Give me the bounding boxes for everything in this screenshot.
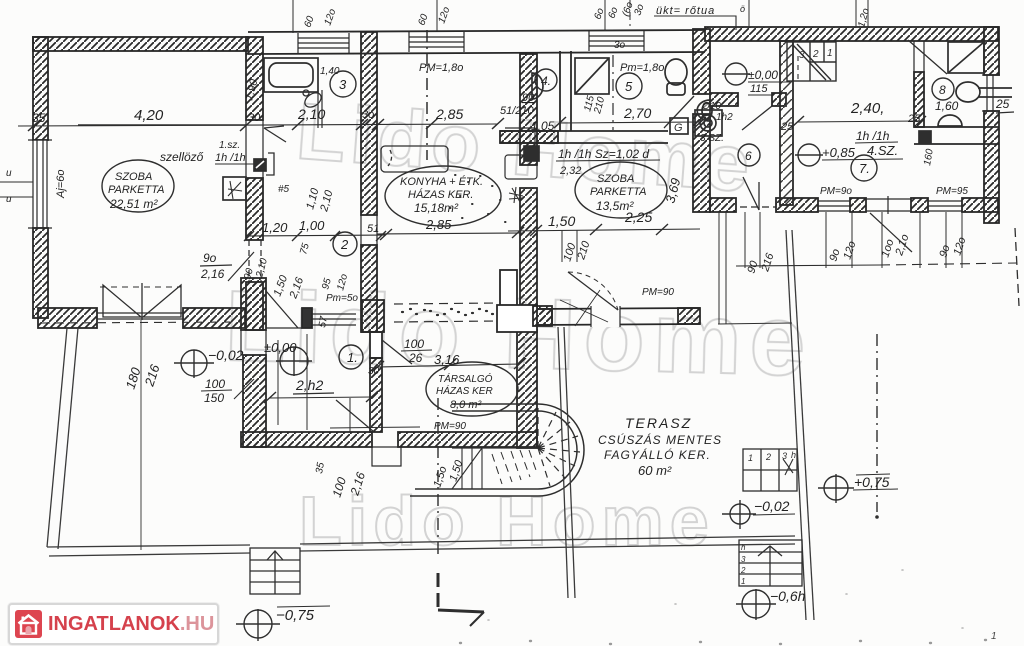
dash-dot vertical terrace right <box>876 334 878 512</box>
svg-text:2,85: 2,85 <box>425 217 452 232</box>
svg-text:1: 1 <box>991 631 997 642</box>
entrance step <box>372 447 401 466</box>
svg-text:2: 2 <box>765 452 771 462</box>
room circle 7 <box>851 155 877 181</box>
svg-text:Pm=5o: Pm=5o <box>326 293 358 304</box>
svg-text:12o: 12o <box>951 236 968 257</box>
dim chain room2 bottom y=236 <box>248 235 385 236</box>
dark stove square near bath 8 <box>919 131 931 143</box>
left room bottom wall left segment <box>38 308 97 328</box>
svg-text:22,51 m²: 22,51 m² <box>109 197 158 211</box>
svg-text:115: 115 <box>750 83 768 95</box>
terrace left border <box>47 328 67 547</box>
svg-text:szellöző: szellöző <box>160 150 204 164</box>
svg-text:1,2o: 1,2o <box>856 7 872 29</box>
dim line below room7 <box>736 265 880 266</box>
svg-text:6o: 6o <box>606 5 620 20</box>
svg-text:−0,02: −0,02 <box>208 347 244 363</box>
window top wall 2 <box>409 32 464 52</box>
ext pair lines x 718-725 <box>718 212 792 324</box>
svg-text:2: 2 <box>812 49 819 60</box>
svg-text:+0,85: +0,85 <box>822 145 856 160</box>
left room left wall lower <box>33 228 48 318</box>
section mark A bottom <box>438 573 484 626</box>
lower wing bottom wall <box>241 432 537 466</box>
toilet room 5 <box>665 59 687 95</box>
szoba 22.51 label <box>102 160 174 212</box>
wall stub above room1 <box>362 300 384 332</box>
svg-text:h: h <box>791 450 796 460</box>
terrace right border <box>786 230 806 620</box>
svg-text:1,60: 1,60 <box>935 99 959 113</box>
lower wing top edge: door jamb dark <box>302 308 312 328</box>
door room2 to room1 <box>266 291 298 328</box>
dim chain szoba13.5 bottom y=230 <box>508 229 700 231</box>
dash-dot vertical bath5 <box>612 55 614 130</box>
dashed boundary right of house <box>880 263 1017 265</box>
left room top wall <box>33 37 248 51</box>
svg-text:1: 1 <box>827 48 833 59</box>
svg-text:26: 26 <box>408 351 423 365</box>
svg-text:FAGYÁLLÓ KER.: FAGYÁLLÓ KER. <box>604 447 711 462</box>
marker ±0,00 room1 <box>264 340 312 376</box>
marker -0,02 terrace <box>722 498 795 529</box>
short right border <box>1015 228 1019 306</box>
svg-text:PM=95: PM=95 <box>936 186 968 197</box>
svg-text:1.: 1. <box>347 350 358 365</box>
svg-text:4,20: 4,20 <box>134 107 164 124</box>
window left wall <box>28 140 52 228</box>
wall between left room and rooms 2-3 <box>246 37 263 330</box>
dim callout lines left room <box>200 265 232 266</box>
stair box room 7 corner <box>787 42 836 81</box>
threshold under room2 door <box>266 327 302 329</box>
stair grid terrace right <box>743 449 797 491</box>
svg-text:51/210: 51/210 <box>500 105 535 117</box>
svg-text:3: 3 <box>339 77 347 92</box>
dashed line below left room door <box>42 322 240 323</box>
svg-text:3.SZ.: 3.SZ. <box>700 133 724 144</box>
marker +0,75 terrace <box>818 474 898 503</box>
svg-text:+0,75: +0,75 <box>854 474 890 490</box>
svg-text:3: 3 <box>741 555 746 564</box>
bath 8 left wall <box>914 41 924 127</box>
svg-text:60: 60 <box>302 14 316 29</box>
svg-text:±0,00: ±0,00 <box>264 340 297 355</box>
svg-text:1,50: 1,50 <box>548 213 575 229</box>
terasz label <box>598 415 722 478</box>
svg-text:CSÚSZÁS MENTES: CSÚSZÁS MENTES <box>598 432 722 447</box>
svg-text:2,40,: 2,40, <box>850 100 884 117</box>
svg-text:8: 8 <box>939 83 946 97</box>
svg-text:−0,6h: −0,6h <box>770 588 806 604</box>
room 7 block top wall <box>705 27 998 41</box>
room circle 2 <box>333 232 357 256</box>
fan hatch <box>492 450 537 484</box>
svg-text:60 m²: 60 m² <box>638 463 672 478</box>
ingatlanok.hu logo <box>8 603 219 645</box>
# mark kitchen <box>509 187 523 203</box>
svg-text:TÁRSALGÓ: TÁRSALGÓ <box>438 372 493 385</box>
svg-text:1,50: 1,50 <box>447 458 465 483</box>
bathtub room 3 <box>264 58 318 92</box>
svg-text:PM=90: PM=90 <box>642 287 674 298</box>
svg-text:3,16: 3,16 <box>434 352 460 367</box>
konyha label <box>385 166 501 232</box>
door szoba13.5 bottom wall <box>568 272 618 310</box>
top wall band middle (rooms 2-3, kitchen, baths 4-5) <box>248 30 705 54</box>
svg-text:PM=9o: PM=9o <box>820 186 852 197</box>
lower wing left wall <box>241 278 266 447</box>
svg-text:2,16: 2,16 <box>200 267 225 281</box>
svg-text:1h /1h Sz=1,02 d: 1h /1h Sz=1,02 d <box>558 147 649 161</box>
svg-text:1: 1 <box>741 577 745 586</box>
dim line above entrance step <box>330 427 420 428</box>
washbasin room 4 <box>532 73 543 99</box>
svg-text:HÁZAS KER: HÁZAS KER <box>436 384 493 397</box>
svg-text:u: u <box>6 194 12 205</box>
stove box left room <box>223 177 246 200</box>
svg-text:±0,00: ±0,00 <box>748 68 778 82</box>
terrace bottom border <box>47 545 250 547</box>
dash-dot vertical kitchen <box>426 30 428 160</box>
dashed strip above room1/tarsalgo (veranda) <box>394 303 497 322</box>
vent black square left room wall <box>254 153 274 175</box>
svg-text:1h /1h: 1h /1h <box>856 129 890 143</box>
dim line tarsalgo 3,16 <box>378 364 520 367</box>
window swing slash room7 <box>870 213 912 252</box>
szoba 13.5 bottom wall <box>534 306 700 327</box>
svg-text:150: 150 <box>204 391 224 405</box>
svg-text:PARKETTA: PARKETTA <box>590 186 646 198</box>
svg-text:210: 210 <box>575 239 593 262</box>
svg-text:100: 100 <box>205 377 225 391</box>
svg-text:1.sz.: 1.sz. <box>219 140 240 151</box>
kitchen counter <box>381 146 448 172</box>
wall between szoba 13.5 and room 6 <box>693 29 710 212</box>
svg-text:2,25: 2,25 <box>624 209 652 225</box>
marker -0,02 left <box>174 347 244 378</box>
svg-text:−0,02: −0,02 <box>754 498 790 514</box>
marker -0,75 bottom center <box>236 606 330 641</box>
dash-dot vertical terrace center <box>437 398 439 556</box>
terrace inner vertical edge line <box>558 327 575 598</box>
T pillar left of szoba13.5 <box>497 270 552 332</box>
door left room to room 2 <box>264 126 286 142</box>
svg-text:2,85: 2,85 <box>435 106 463 122</box>
svg-text:30: 30 <box>368 366 380 377</box>
scatter dots kitchen <box>450 175 506 222</box>
door tarsalgo gap <box>382 340 412 364</box>
svg-text:12o: 12o <box>322 7 338 27</box>
svg-text:2: 2 <box>340 237 349 252</box>
svg-text:h: h <box>741 543 746 552</box>
svg-text:−0,75: −0,75 <box>276 607 315 624</box>
dashed door arc szoba13.5 bottom <box>568 272 618 310</box>
door bath 8 <box>908 40 947 74</box>
svg-text:G: G <box>674 122 683 134</box>
svg-text:9o: 9o <box>827 248 842 263</box>
svg-text:3o: 3o <box>614 40 626 51</box>
door szoba 13.5 <box>664 96 694 128</box>
room 7 block right wall <box>982 27 1000 223</box>
svg-text:6: 6 <box>745 149 752 163</box>
door room 6 bottom <box>743 177 759 210</box>
svg-text:PM=90: PM=90 <box>434 421 466 432</box>
svg-text:216: 216 <box>141 362 163 389</box>
main dim chain y=125 <box>18 118 504 131</box>
svg-text:15,18m²: 15,18m² <box>414 201 459 215</box>
svg-text:35: 35 <box>32 111 46 125</box>
bath 8 bottom wall <box>914 127 999 144</box>
svg-text:90: 90 <box>522 92 535 104</box>
svg-text:PM=1,8o: PM=1,8o <box>419 62 463 74</box>
svg-text:25: 25 <box>907 113 921 125</box>
dim line room1 hall <box>270 397 372 398</box>
ext lines alatt szoba13.5 <box>562 230 577 262</box>
wall between room 1 and tarsalgo <box>370 332 382 432</box>
svg-text:12o: 12o <box>841 240 858 261</box>
svg-text:60: 60 <box>416 12 430 27</box>
svg-text:25: 25 <box>995 97 1010 111</box>
radial dashes <box>538 408 580 486</box>
ukt underline <box>654 16 736 30</box>
toilet room 6 small <box>702 103 712 119</box>
svg-text:1,40: 1,40 <box>320 66 340 77</box>
room 7 left wall <box>780 41 793 205</box>
svg-text:3: 3 <box>799 50 805 61</box>
svg-text:160: 160 <box>922 148 936 167</box>
rooms 4-5 bottom wall <box>500 131 668 143</box>
szoba 13.5 label <box>575 162 667 218</box>
treads <box>452 448 482 489</box>
svg-text:51: 51 <box>367 223 379 235</box>
svg-text:5: 5 <box>625 79 633 94</box>
svg-text:25: 25 <box>780 121 794 133</box>
svg-text:100: 100 <box>404 337 424 351</box>
construction crossing lines near spiral <box>560 290 608 326</box>
svg-text:1: 1 <box>748 453 753 463</box>
wall between rooms 2-3 and kitchen <box>361 32 377 332</box>
room circle 6 <box>738 144 760 166</box>
marker ±0,00 room7 hall <box>722 63 790 95</box>
room 7 block bottom wall <box>710 196 998 214</box>
lower wing right wall <box>517 330 537 448</box>
svg-text:216: 216 <box>759 251 777 274</box>
black square kitchen wall <box>524 146 539 161</box>
svg-text:1,20: 1,20 <box>262 220 288 235</box>
entrance door room1 <box>336 400 374 432</box>
shower room 5 <box>575 58 609 94</box>
divider wall between room 4 and room 5 <box>560 51 571 131</box>
svg-text:9o: 9o <box>937 244 952 259</box>
vertical ext lines below room7 block <box>745 212 962 268</box>
lower wing top edge: window sill <box>312 314 356 325</box>
svg-text:12o: 12o <box>436 5 452 25</box>
boiler circle rooms 4-5 wall <box>695 110 722 136</box>
wall between kitchen and rooms 4 / szoba 13.5 <box>520 54 537 310</box>
room 6 top wall <box>710 93 786 106</box>
room circle 1 <box>339 345 363 369</box>
svg-text:Pm=1,8o: Pm=1,8o <box>620 62 664 74</box>
room circle 8 <box>932 78 954 100</box>
svg-text:KONYHA + ÉTK.: KONYHA + ÉTK. <box>400 175 483 188</box>
svg-text:8,0 m²: 8,0 m² <box>450 399 482 411</box>
dim chain room5 <box>560 122 700 123</box>
svg-text:35: 35 <box>314 461 327 474</box>
spiral staircase <box>410 404 584 496</box>
svg-text:90: 90 <box>745 259 760 275</box>
svg-text:SZOBA: SZOBA <box>115 171 152 183</box>
svg-text:2,32: 2,32 <box>559 165 581 177</box>
window top wall 1 <box>298 33 349 53</box>
svg-text:PARKETTA: PARKETTA <box>108 184 164 196</box>
room1 dim risers <box>277 340 279 425</box>
window top wall 3 <box>589 31 644 51</box>
G box <box>670 118 688 134</box>
svg-text:3o: 3o <box>362 109 374 121</box>
dim chain konyha bottom y=233 <box>377 233 522 234</box>
straight stair bottom-center <box>250 548 300 594</box>
svg-text:#5: #5 <box>278 184 290 195</box>
left wall window dims <box>0 182 33 197</box>
svg-text:2,10: 2,10 <box>297 106 325 122</box>
svg-text:ö: ö <box>740 4 745 14</box>
svg-text:30: 30 <box>248 112 261 124</box>
svg-text:4.SZ.: 4.SZ. <box>867 143 898 158</box>
stacked dims <box>201 40 626 405</box>
svg-text:7.: 7. <box>859 161 870 176</box>
svg-text:Aj=6o: Aj=6o <box>55 170 67 199</box>
top edge ticks <box>293 0 868 33</box>
marker +0,85 room7 <box>795 129 903 166</box>
washbasin room 6 <box>697 100 710 121</box>
smudge dots bottom <box>460 640 986 644</box>
shower bath 8 <box>948 42 984 73</box>
svg-text:3o: 3o <box>632 2 646 17</box>
washbasin bath 8 <box>938 115 962 126</box>
svg-text:1,00: 1,00 <box>299 218 325 233</box>
dim chain room7 <box>798 121 920 122</box>
left room bottom wall right segment <box>183 308 245 328</box>
left room left wall upper <box>33 37 48 140</box>
svg-text:75: 75 <box>298 242 312 256</box>
svg-text:HÁZAS KER.: HÁZAS KER. <box>408 188 473 201</box>
room circle 3 <box>330 71 356 97</box>
kitchen cabinet niche right side <box>505 128 537 179</box>
room circle 4 <box>535 69 557 91</box>
tarsalgo label <box>426 362 518 416</box>
toilet bath 8 <box>956 82 1012 102</box>
svg-text:ükt= rőtua: ükt= rőtua <box>656 5 715 17</box>
svg-text:2,h2: 2,h2 <box>295 377 323 393</box>
svg-text:u: u <box>6 168 12 179</box>
washbasin room 3 <box>302 90 324 110</box>
room circle 5 <box>616 73 642 99</box>
french door triangles left room <box>97 283 184 550</box>
svg-text:4.: 4. <box>541 74 551 88</box>
svg-text:SZOBA: SZOBA <box>597 173 634 185</box>
stair bottom right <box>739 540 802 586</box>
svg-text:9o: 9o <box>203 251 217 265</box>
svg-text:1h /1h: 1h /1h <box>215 152 246 164</box>
partition room 3 <box>318 90 322 128</box>
svg-text:1h2: 1h2 <box>716 112 733 123</box>
svg-text:Ø10: Ø10 <box>701 101 721 112</box>
svg-text:2: 2 <box>740 566 746 575</box>
marker -0,6h bottom right <box>736 588 806 620</box>
svg-text:TERASZ: TERASZ <box>625 415 692 431</box>
door room 6 top <box>742 106 772 130</box>
svg-text:2,70: 2,70 <box>623 105 651 121</box>
